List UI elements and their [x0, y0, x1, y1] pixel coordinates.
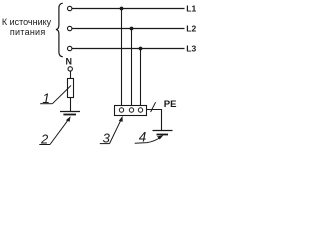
node: source label "К источнику питания" — [2, 17, 52, 37]
svg-text:L1: L1 — [186, 3, 196, 13]
svg-text:N: N — [65, 57, 72, 67]
terminal circle 1 in box — [119, 108, 123, 112]
ground electrode symbol (item 2) — [60, 112, 80, 115]
leader arrow to terminal box — [110, 119, 122, 144]
wire from L3 junction down to terminal box — [140, 49, 142, 106]
junction dot on L2 — [130, 27, 134, 31]
terminal circle 3 in box — [138, 108, 142, 112]
brace grouping source phase terminals — [56, 3, 63, 57]
slash mark on PE conductor — [151, 102, 156, 112]
junction dot on L3 — [139, 47, 143, 51]
wire from L2 junction down to terminal box — [131, 29, 133, 106]
wire from arrester to ground — [70, 98, 72, 112]
surge arrester (item 1) rectangle — [68, 79, 74, 98]
leader line into arrester — [52, 86, 71, 104]
leader shelf for item 2 — [39, 144, 50, 146]
wire from N terminal to arrester — [70, 71, 72, 78]
wire L1 — [72, 8, 185, 10]
leader arrow to left ground — [50, 119, 69, 145]
junction dot on L1 — [120, 7, 124, 11]
terminal box (item 3) — [115, 106, 147, 116]
terminal circle phase L3 — [68, 46, 72, 50]
terminal circle neutral N — [68, 67, 72, 71]
svg-text:питания: питания — [10, 27, 46, 37]
svg-text:К источнику: К источнику — [2, 17, 52, 27]
terminal circle phase L2 — [68, 26, 72, 30]
ground electrode symbol (item 4) — [153, 131, 173, 135]
terminal circle 2 in box — [129, 108, 133, 112]
leader shelf for item 4 — [135, 137, 162, 144]
PE conductor wire from box to ground — [147, 110, 162, 131]
terminal circle phase L1 — [68, 6, 72, 10]
wire L3 — [72, 48, 185, 50]
leader shelf for item 3 — [100, 143, 110, 145]
arrowhead of leader 4 — [157, 135, 163, 139]
wire from L1 junction down to terminal box — [121, 9, 123, 106]
wire L2 — [72, 28, 185, 30]
svg-text:L3: L3 — [186, 43, 196, 53]
svg-text:PE: PE — [164, 99, 177, 110]
svg-text:L2: L2 — [186, 23, 196, 33]
leader shelf for item 1 — [40, 103, 52, 105]
